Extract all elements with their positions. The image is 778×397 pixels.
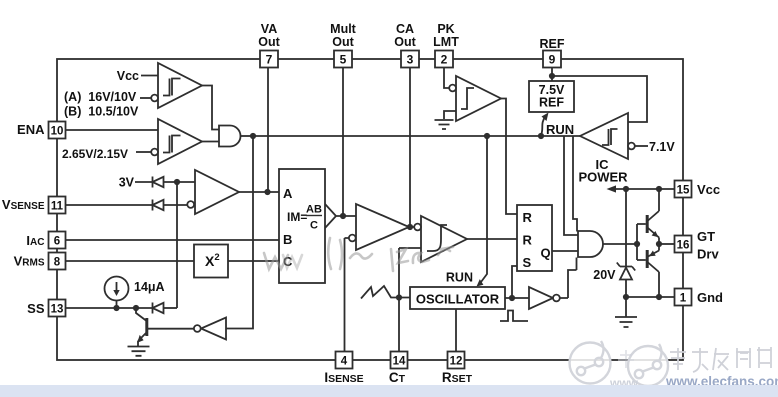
transistor Q2 PNP (648, 244, 659, 257)
current source 14uA (105, 277, 129, 301)
diode D2 VSENSE (66, 200, 153, 211)
IC boundary (57, 59, 683, 360)
wire to pin16 (659, 243, 675, 245)
svg-text:POWER: POWER (578, 170, 628, 185)
wire pin7 to node A (267, 68, 269, 193)
node VA output (264, 189, 270, 195)
diode D3 soft start (152, 303, 154, 314)
wire RUN to oscillator with arrow (480, 136, 488, 284)
svg-text:REF: REF (540, 37, 565, 51)
wire SS clamp vertical (176, 182, 178, 308)
wire ENA pin to U2 (66, 129, 159, 131)
wire X2 to multiplier C (228, 260, 279, 262)
svg-text:15: 15 (677, 185, 690, 197)
svg-text:3: 3 (407, 53, 414, 67)
svg-text:IM=: IM= (287, 210, 307, 224)
svg-text:ISENSE: ISENSE (324, 370, 363, 385)
comparator U1 Vcc UVLO (158, 63, 202, 108)
svg-text:Out: Out (332, 35, 354, 49)
wire Q output to driver AND (552, 250, 578, 252)
wire RUN down to driver AND (564, 136, 578, 235)
node RUN ref branch (538, 133, 544, 139)
svg-text:IAC: IAC (26, 233, 44, 248)
svg-text:A: A (283, 186, 293, 201)
node SS current source (113, 305, 119, 311)
node emitter ground (656, 294, 662, 300)
node Vcc zener (623, 186, 629, 192)
pin 10 ENA (49, 122, 66, 139)
svg-text:S: S (523, 255, 532, 270)
svg-text:7.1V: 7.1V (649, 140, 675, 154)
RUN arrow to REF block (541, 117, 546, 136)
svg-text:10: 10 (51, 126, 64, 138)
svg-text:(B) 10.5/10V: (B) 10.5/10V (64, 105, 139, 119)
wire pin9 REF (551, 68, 553, 82)
wire PK LMT output to flip-flop R1 (501, 99, 517, 215)
svg-text:AB: AB (306, 204, 322, 216)
node SS transistor (133, 305, 139, 311)
svg-text:RUN: RUN (546, 122, 574, 137)
svg-text:2: 2 (441, 53, 448, 67)
base bracket (637, 224, 646, 260)
svg-text:VSENSE: VSENSE (2, 197, 45, 212)
wire CA output to PWM comparator (409, 226, 414, 228)
wire PWM output to flip-flop R2 (467, 238, 517, 240)
svg-text:CA: CA (396, 22, 414, 36)
pin 12 RSET (448, 352, 465, 369)
wire U4 output to driver AND (560, 258, 577, 299)
wire pin2 to PK LMT comparator (444, 68, 449, 89)
bottom blue bar (0, 385, 778, 397)
svg-text:Mult: Mult (330, 22, 357, 36)
wire oscillator output to inverter U4 (505, 297, 529, 299)
svg-text:REF: REF (539, 96, 564, 110)
label 7.1V (635, 145, 648, 147)
inverter U4 blanking (529, 287, 553, 309)
op-amp CA current amplifier (356, 204, 409, 250)
svg-text:13: 13 (51, 304, 64, 316)
svg-text:12: 12 (450, 356, 463, 368)
node gate drive output (656, 241, 662, 247)
node multiplier output (340, 213, 346, 219)
zener 20V (625, 189, 627, 267)
wire D1 to VA input (164, 181, 196, 183)
svg-text:LMT: LMT (433, 35, 459, 49)
watermark scribble middle (264, 238, 453, 271)
pin 7 VA Out (260, 51, 278, 68)
svg-text:14μA: 14μA (134, 280, 165, 294)
svg-text:SS: SS (27, 301, 45, 316)
svg-text:RUN: RUN (446, 271, 473, 285)
ground SS (128, 347, 150, 356)
diode D1 3V clamp (135, 177, 153, 188)
comparator PWM (421, 216, 467, 262)
pin 13 SS (49, 300, 66, 317)
watermark text elecfans (618, 347, 771, 372)
node RUN osc branch (484, 133, 490, 139)
wire U3 output to Q3 base (148, 328, 194, 330)
wire CT ramp to PWM comparator (399, 248, 421, 352)
watermark logo stamps bottom right (570, 341, 669, 386)
svg-text:8: 8 (54, 257, 61, 269)
svg-text:(A) 16V/10V: (A) 16V/10V (64, 90, 137, 104)
svg-text:R: R (523, 233, 533, 248)
svg-text:5: 5 (340, 53, 347, 67)
svg-text:Q: Q (541, 246, 551, 261)
svg-text:Vcc: Vcc (697, 182, 720, 197)
and gate A1 (219, 126, 241, 147)
wire SS pin line (66, 307, 153, 309)
svg-text:16: 16 (677, 240, 690, 252)
sawtooth symbol (361, 286, 410, 299)
svg-text:R: R (523, 210, 533, 225)
svg-text:ENA: ENA (17, 122, 45, 137)
svg-text:20V: 20V (593, 268, 616, 282)
svg-text:2.65V/2.15V: 2.65V/2.15V (62, 147, 128, 161)
svg-text:VRMS: VRMS (14, 254, 45, 269)
transistor Q1 NPN (648, 189, 659, 221)
svg-text:14: 14 (393, 356, 406, 368)
multiplier block (279, 169, 325, 283)
wire VA output to multiplier A (239, 191, 279, 193)
node CA output (407, 224, 413, 230)
pin 1 Gnd (675, 289, 692, 306)
wire AND output down to U3 input (226, 136, 253, 329)
svg-text:VA: VA (261, 22, 277, 36)
and gate driver (578, 231, 603, 257)
wire ISENSE pin4 to CA inverting input (345, 238, 349, 352)
node S input branch (509, 295, 515, 301)
svg-text:4: 4 (341, 356, 348, 368)
svg-text:Gnd: Gnd (697, 290, 723, 305)
wire REF to 7.1V comparator (552, 76, 647, 122)
svg-text:CT: CT (389, 370, 406, 385)
wire Vcc line with arrow (613, 188, 675, 190)
svg-text:Out: Out (258, 35, 280, 49)
comparator PK LMT (456, 76, 501, 121)
node zener ground (623, 294, 629, 300)
node Vcc collector (656, 186, 662, 192)
svg-text:Vcc: Vcc (117, 69, 139, 83)
OSCILLATOR block (410, 287, 505, 309)
svg-text:C: C (310, 220, 318, 232)
node base drive (634, 241, 640, 247)
svg-text:1: 1 (680, 293, 687, 305)
svg-text:GT: GT (697, 229, 715, 244)
pulse symbol (500, 311, 528, 322)
svg-text:B: B (283, 232, 292, 247)
wire pin5 to multiplier output (342, 68, 344, 216)
svg-text:RSET: RSET (442, 370, 473, 385)
transistor Q3 SS clamp (136, 308, 146, 321)
inverter U3 (201, 318, 226, 340)
node REF (549, 73, 555, 79)
pin 5 Mult Out (334, 51, 352, 68)
7.5V REF block (529, 81, 574, 112)
svg-text:OSCILLATOR: OSCILLATOR (416, 292, 500, 307)
squarer X2 block (66, 260, 195, 262)
op-amp VA voltage amplifier (195, 170, 239, 214)
node AND output (250, 133, 256, 139)
wire RSET pin12 to oscillator (455, 309, 457, 352)
comparator U2 ENA (158, 119, 202, 164)
svg-text:PK: PK (437, 22, 454, 36)
pin 2 PK LMT (435, 51, 453, 68)
svg-text:7: 7 (266, 53, 273, 67)
svg-text:Out: Out (394, 35, 416, 49)
svg-text:9: 9 (549, 53, 556, 67)
pin 4 ISENSE (336, 352, 353, 369)
svg-text:3V: 3V (119, 176, 135, 190)
pin 8 VRMS (49, 253, 66, 270)
pin 6 IAC (49, 232, 66, 249)
wire RUN line (253, 135, 580, 137)
pin 3 CA Out (401, 51, 419, 68)
svg-text:11: 11 (51, 201, 64, 213)
svg-text:Drv: Drv (697, 247, 719, 262)
wire driver AND output to bases (603, 243, 637, 245)
ground PK LMT (444, 111, 456, 119)
wire S input (512, 266, 517, 298)
pin 14 CT (391, 352, 408, 369)
pin 16 GT Drv (675, 236, 692, 253)
svg-text:6: 6 (54, 236, 60, 248)
wire U1 output to AND gate (202, 86, 219, 130)
wire 7.1V comparator output to driver AND (573, 136, 577, 232)
node 3V clamp (174, 179, 180, 185)
svg-text:X2: X2 (205, 252, 220, 269)
node CT oscillator (396, 294, 402, 300)
pin 11 VSENSE (49, 197, 66, 214)
pin 9 REF (543, 51, 561, 68)
wire IAC to multiplier B (66, 239, 280, 241)
multiplier output wedge (325, 204, 356, 228)
ground output stage (625, 297, 627, 317)
wire ground line to pin1 (626, 296, 675, 298)
wire pin3 to CA output (409, 68, 411, 228)
flip-flop RS (517, 205, 552, 271)
wire U2 output to AND gate (202, 141, 219, 143)
pin 15 Vcc (675, 181, 692, 198)
comparator 7.1V (580, 113, 628, 159)
